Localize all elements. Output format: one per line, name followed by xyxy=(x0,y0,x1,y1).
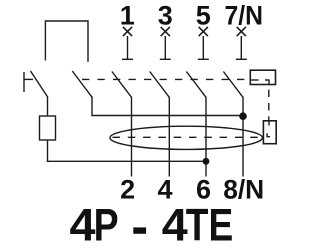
svg-text:TE: TE xyxy=(186,200,233,250)
svg-text:4: 4 xyxy=(70,200,96,250)
svg-text:7/N: 7/N xyxy=(224,1,263,31)
svg-text:4: 4 xyxy=(162,200,188,250)
svg-text:3: 3 xyxy=(158,1,173,31)
svg-text:5: 5 xyxy=(196,1,211,31)
svg-text:2: 2 xyxy=(120,174,135,204)
svg-text:1: 1 xyxy=(120,1,135,31)
svg-text:P: P xyxy=(94,200,119,250)
